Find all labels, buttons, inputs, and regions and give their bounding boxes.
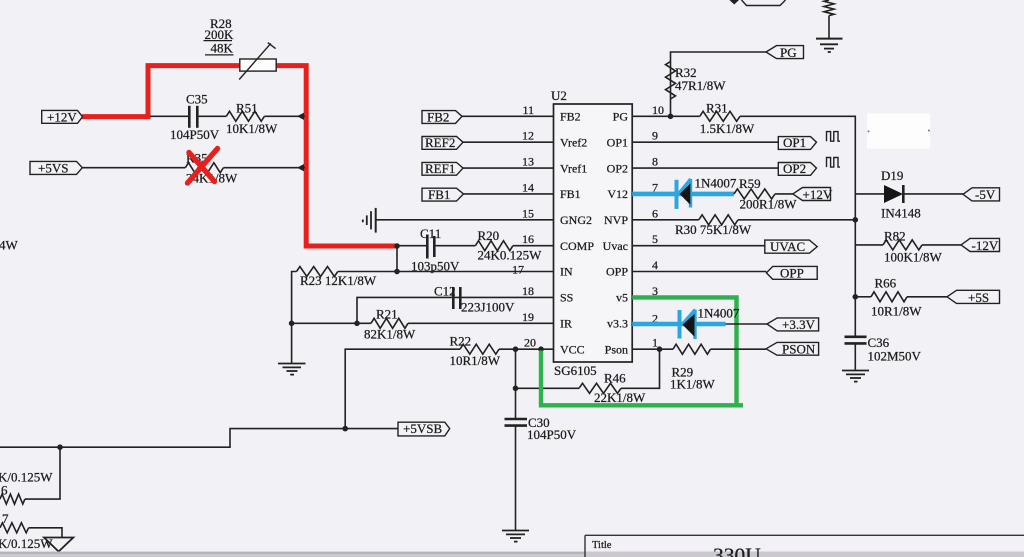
- ground below C36: [842, 371, 869, 382]
- diode D blue 1N4007 on V12: [677, 176, 737, 209]
- svg-text:C12: C12: [434, 284, 456, 299]
- svg-text:18: 18: [522, 284, 534, 298]
- resistor R32 vertical: [666, 62, 727, 100]
- svg-text:+3.3V: +3.3V: [782, 317, 816, 332]
- wire arrow fragment top edge: [730, 0, 740, 5]
- wire red highlighted trace from +12V to COMP node: [82, 66, 397, 246]
- capacitor C12: [434, 284, 515, 315]
- svg-text:V12: V12: [607, 187, 628, 201]
- junction dot pin10 R32 branch: [668, 114, 674, 120]
- svg-text:R46: R46: [604, 371, 626, 386]
- wire blue highlighted V12 pin7 trace: [632, 192, 734, 197]
- wire C12 left elbow down to IR row: [357, 297, 452, 323]
- svg-text:C11: C11: [420, 226, 441, 241]
- svg-text:8: 8: [652, 155, 658, 169]
- node +12V label: [42, 109, 83, 124]
- resistor R59: [734, 176, 797, 212]
- svg-text:NVP: NVP: [604, 213, 628, 227]
- svg-text:-5V: -5V: [975, 187, 996, 202]
- svg-text:v3.3: v3.3: [607, 317, 628, 331]
- resistor partial top right: [824, 0, 834, 16]
- svg-text:+12V: +12V: [47, 109, 77, 124]
- resistor R66: [871, 276, 922, 319]
- svg-text:330U: 330U: [713, 544, 761, 557]
- wire pin5 Uvac row: [632, 245, 765, 247]
- svg-text:1K1/8W: 1K1/8W: [670, 377, 716, 392]
- svg-text:7: 7: [2, 511, 9, 526]
- wire bus branch to R66: [855, 296, 871, 298]
- wire R29 to PSON label: [711, 348, 767, 350]
- svg-text:OPP: OPP: [780, 265, 804, 280]
- resistor 7 (partial, left edge): [0, 511, 53, 551]
- svg-text:FB1: FB1: [560, 187, 581, 201]
- svg-text:R22: R22: [450, 333, 472, 348]
- node +12V right label: [793, 187, 833, 202]
- scanner edge gray band bottom: [0, 552, 1024, 557]
- svg-text:REF2: REF2: [425, 135, 455, 150]
- svg-text:VCC: VCC: [560, 342, 585, 356]
- capacitor C30: [505, 415, 577, 442]
- svg-text:OP2: OP2: [607, 161, 628, 175]
- wire R22 left elbow down to +5VSB row: [345, 349, 460, 428]
- node HTB2 label partial top edge: [742, 0, 786, 6]
- node FB1 label: [422, 187, 464, 202]
- junction dot Pson row: [657, 346, 663, 352]
- svg-text:6: 6: [652, 206, 658, 220]
- capacitor C11: [411, 226, 460, 273]
- svg-text:R51: R51: [236, 100, 258, 115]
- ground below C30: [502, 531, 529, 542]
- svg-text:100K1/8W: 100K1/8W: [884, 250, 943, 265]
- white correction patch: [867, 114, 930, 149]
- svg-text:+5S: +5S: [968, 290, 989, 305]
- wire pin9 OP1 row: [632, 141, 778, 143]
- svg-text:SS: SS: [560, 291, 573, 305]
- svg-text:82K1/8W: 82K1/8W: [364, 327, 416, 342]
- junction dot IN row: [394, 269, 400, 275]
- wire pin4 OPP row: [632, 271, 766, 273]
- svg-text:11: 11: [522, 103, 534, 117]
- chassis ground triangle: [44, 538, 73, 552]
- node +5VSB label: [398, 421, 450, 436]
- pulse waveform glyph OP1: [827, 132, 841, 142]
- svg-text:Title: Title: [592, 540, 612, 551]
- svg-text:19: 19: [522, 310, 534, 324]
- svg-text:FB1: FB1: [428, 187, 450, 202]
- node OP2 label: [778, 161, 816, 176]
- node -12V label: [961, 238, 1000, 253]
- diode D blue 1N4007 on v3.3: [680, 306, 740, 340]
- capacitor C35: [170, 92, 220, 142]
- wire FB1 to pin14: [464, 193, 554, 195]
- ground sideways at pin15 GNG2: [363, 208, 376, 233]
- wire FB2 to pin11: [462, 115, 554, 117]
- junction dot IR row mid: [354, 321, 360, 327]
- svg-text:6: 6: [1, 482, 8, 497]
- wire pin1 Pson row: [632, 348, 673, 350]
- node PG label: [766, 45, 804, 60]
- wire green highlighted trace v5 to VCC: [541, 297, 737, 405]
- svg-text:SG6105: SG6105: [554, 363, 597, 378]
- wire REF2 to pin12: [463, 141, 554, 143]
- wire v3.3 to +3.3V label: [726, 323, 767, 325]
- resistor R51: [226, 100, 278, 136]
- junction dot IR row left: [289, 321, 295, 327]
- svg-text:Pson: Pson: [605, 342, 628, 356]
- svg-text:R31: R31: [706, 101, 728, 116]
- svg-text:R82: R82: [884, 229, 906, 244]
- svg-text:17: 17: [512, 263, 524, 277]
- wire blue highlighted v3.3 pin2 trace: [632, 322, 725, 327]
- wire R46 right elbow up to Pson row: [621, 349, 660, 388]
- diode D19: [855, 168, 920, 221]
- node +5VS label: [30, 160, 82, 175]
- svg-text:+5VSB: +5VSB: [403, 421, 442, 436]
- wire R23 left elbow down to ground: [292, 272, 297, 364]
- resistor R82: [883, 229, 943, 265]
- svg-text:R23 12K1/8W: R23 12K1/8W: [300, 273, 377, 288]
- svg-text:Uvac: Uvac: [603, 239, 628, 253]
- node PSON label: [766, 342, 819, 357]
- wire C11 to R20: [436, 245, 476, 247]
- junction dot VCC row at C30 branch: [513, 346, 519, 352]
- svg-text:Vref1: Vref1: [560, 161, 587, 175]
- wire +5VSB run from left edge: [0, 429, 398, 448]
- node +5S label: [947, 290, 1000, 305]
- junction dot R46 row: [513, 386, 519, 392]
- svg-text:R66: R66: [875, 276, 897, 291]
- wire +5VS to R35: [82, 167, 185, 169]
- svg-text:FB2: FB2: [560, 110, 581, 124]
- svg-text:1N4007: 1N4007: [695, 176, 737, 191]
- wire C30 down to ground: [515, 426, 517, 531]
- svg-text:15: 15: [522, 206, 534, 220]
- resistor R35 (crossed out): [185, 151, 238, 186]
- svg-text:IN4148: IN4148: [881, 206, 921, 221]
- svg-text:1N4007: 1N4007: [698, 306, 740, 321]
- svg-text:IN: IN: [560, 265, 573, 279]
- junction dot +5VSB row at R22 drop: [342, 426, 348, 432]
- junction dot bus NVP row: [853, 217, 859, 223]
- svg-text:12: 12: [522, 129, 534, 143]
- svg-text:200K: 200K: [205, 27, 235, 42]
- node FB2 label: [422, 109, 462, 124]
- wire C36 to ground: [854, 343, 856, 370]
- svg-text:v5: v5: [616, 291, 628, 305]
- wire REF1 to pin13: [463, 167, 554, 169]
- wire pin10 PG row to R31: [632, 115, 700, 117]
- wire pin6 NVP row to bus: [632, 219, 699, 221]
- svg-text:GNG2: GNG2: [560, 213, 592, 227]
- red X cross-out mark over R35: [188, 149, 218, 184]
- svg-text:Vref2: Vref2: [560, 135, 587, 149]
- svg-text:104P50V: 104P50V: [527, 427, 577, 442]
- svg-text:1.5K1/8W: 1.5K1/8W: [700, 121, 755, 136]
- wire pin17 IN row: [338, 271, 554, 273]
- wire bus branch to R82: [855, 244, 883, 246]
- svg-text:200R1/8W: 200R1/8W: [740, 197, 798, 212]
- node UVAC label: [765, 239, 817, 254]
- resistor R30: [675, 215, 752, 237]
- svg-text:13: 13: [522, 155, 534, 169]
- svg-text:1: 1: [652, 336, 658, 350]
- green trace overshoot nub: [737, 403, 744, 407]
- svg-text:OP1: OP1: [607, 135, 628, 149]
- resistor R20: [475, 228, 542, 262]
- svg-text:223J100V: 223J100V: [461, 300, 515, 315]
- resistor R31: [700, 101, 755, 136]
- value label R28 200K 48K: [204, 16, 235, 56]
- resistor 6 (partial, left edge): [0, 469, 53, 504]
- wire pin20 VCC row: [499, 348, 554, 350]
- pin names left column: [560, 110, 594, 357]
- resistor R21: [364, 306, 416, 341]
- wire R66 to +5S label: [907, 296, 947, 298]
- wire R21 to left junction: [292, 322, 371, 324]
- svg-text:IR: IR: [560, 317, 572, 331]
- svg-text:10R1/8W: 10R1/8W: [450, 353, 501, 368]
- pin numbers left 11-20: [512, 103, 536, 350]
- svg-text:4: 4: [652, 258, 658, 272]
- svg-text:K/0.125W: K/0.125W: [0, 469, 53, 484]
- wire R31 to right bus and bus down to C36: [740, 116, 855, 336]
- svg-text:+12V: +12V: [803, 187, 833, 202]
- svg-text:U2: U2: [551, 88, 567, 103]
- wire COMP node down to IN row: [396, 246, 398, 272]
- svg-text:48K: 48K: [211, 41, 234, 56]
- svg-text:OP2: OP2: [783, 161, 806, 176]
- svg-text:PG: PG: [613, 110, 629, 124]
- wire C35 to R51: [199, 115, 227, 117]
- svg-text:22K1/8W: 22K1/8W: [594, 390, 646, 405]
- resistor R29: [670, 344, 716, 391]
- svg-text:4W: 4W: [0, 237, 19, 252]
- svg-text:UVAC: UVAC: [770, 239, 805, 254]
- svg-text:-12V: -12V: [972, 238, 999, 253]
- wire pin19 IR row: [408, 322, 554, 324]
- svg-text:OPP: OPP: [606, 265, 628, 279]
- svg-text:R21: R21: [376, 306, 398, 321]
- pin names right column: [603, 110, 629, 357]
- svg-text:R20: R20: [478, 228, 500, 243]
- wire R20 to pin16: [513, 245, 554, 247]
- svg-text:PSON: PSON: [782, 342, 816, 357]
- svg-text:R59: R59: [739, 176, 761, 191]
- svg-text:10K1/8W: 10K1/8W: [226, 121, 278, 136]
- pulse waveform glyph OP2: [827, 158, 841, 168]
- wire R32 top elbow to PG label: [671, 52, 767, 116]
- svg-text:C35: C35: [186, 92, 208, 107]
- node REF1 label: [422, 161, 463, 176]
- svg-text:OP1: OP1: [783, 135, 806, 150]
- svg-text:PG: PG: [780, 45, 797, 60]
- resistor R22: [450, 333, 501, 368]
- svg-text:24K0.125W: 24K0.125W: [478, 247, 543, 262]
- wire R82 to -12V label: [922, 244, 961, 246]
- svg-text:REF1: REF1: [425, 161, 455, 176]
- node +3.3V label: [767, 317, 819, 332]
- ground below R23: [278, 364, 306, 375]
- junction dot lower-left net: [57, 444, 63, 450]
- svg-text:FB2: FB2: [427, 109, 449, 124]
- svg-text:10: 10: [652, 103, 664, 117]
- svg-text:102M50V: 102M50V: [868, 349, 922, 364]
- wire +12V row black segment: [150, 115, 188, 117]
- svg-text:16: 16: [522, 232, 534, 246]
- node -5V label: [963, 187, 1000, 202]
- svg-text:104P50V: 104P50V: [170, 127, 220, 142]
- wire R35 to red vertical: [223, 164, 305, 171]
- capacitor C36: [845, 335, 922, 364]
- junction dot bus at R66: [853, 294, 859, 300]
- svg-text:10R1/8W: 10R1/8W: [871, 304, 922, 319]
- node REF2 label: [422, 135, 463, 150]
- wire R59 to +12V label: [775, 193, 793, 195]
- pin numbers right 10-1: [652, 103, 664, 350]
- svg-text:+5VS: +5VS: [38, 160, 68, 175]
- wire R30 to bus: [738, 219, 855, 221]
- wire pin8 OP2 row: [632, 167, 778, 169]
- svg-text:20: 20: [524, 336, 536, 350]
- resistor R46: [579, 371, 646, 406]
- junction dot VCC row at green branch: [538, 346, 544, 352]
- wire R51 to red vertical with junction arrow: [264, 113, 305, 120]
- wire COMP node to C11: [397, 245, 426, 247]
- trimmer R28 box: [239, 43, 276, 80]
- resistor R23: [297, 267, 377, 289]
- wire C30 vertical from VCC row: [515, 349, 517, 419]
- wire pin15 GNG2 row: [377, 219, 554, 221]
- node OPP label: [766, 265, 817, 280]
- wire pin18 SS row: [452, 296, 554, 298]
- svg-text:14: 14: [522, 180, 534, 194]
- wire R46 row left: [516, 387, 580, 389]
- wire resistor 7 to chassis ground: [29, 528, 62, 538]
- svg-text:9: 9: [652, 129, 658, 143]
- svg-text:D19: D19: [881, 168, 903, 183]
- svg-text:47R1/8W: 47R1/8W: [675, 78, 726, 93]
- wire drop to left resistor 6: [25, 447, 60, 499]
- svg-text:5: 5: [652, 232, 658, 246]
- wire partial resistor to ground: [828, 16, 830, 38]
- wire D19 to -5V label: [905, 193, 964, 195]
- node OP1 label: [778, 135, 816, 150]
- ground top right: [816, 39, 843, 52]
- junction dot COMP node: [394, 243, 400, 249]
- title block frame: [585, 535, 1024, 557]
- svg-text:R30 75K1/8W: R30 75K1/8W: [675, 222, 752, 237]
- svg-text:COMP: COMP: [560, 239, 594, 253]
- op-amp U2 IC body SG6105: [551, 88, 632, 378]
